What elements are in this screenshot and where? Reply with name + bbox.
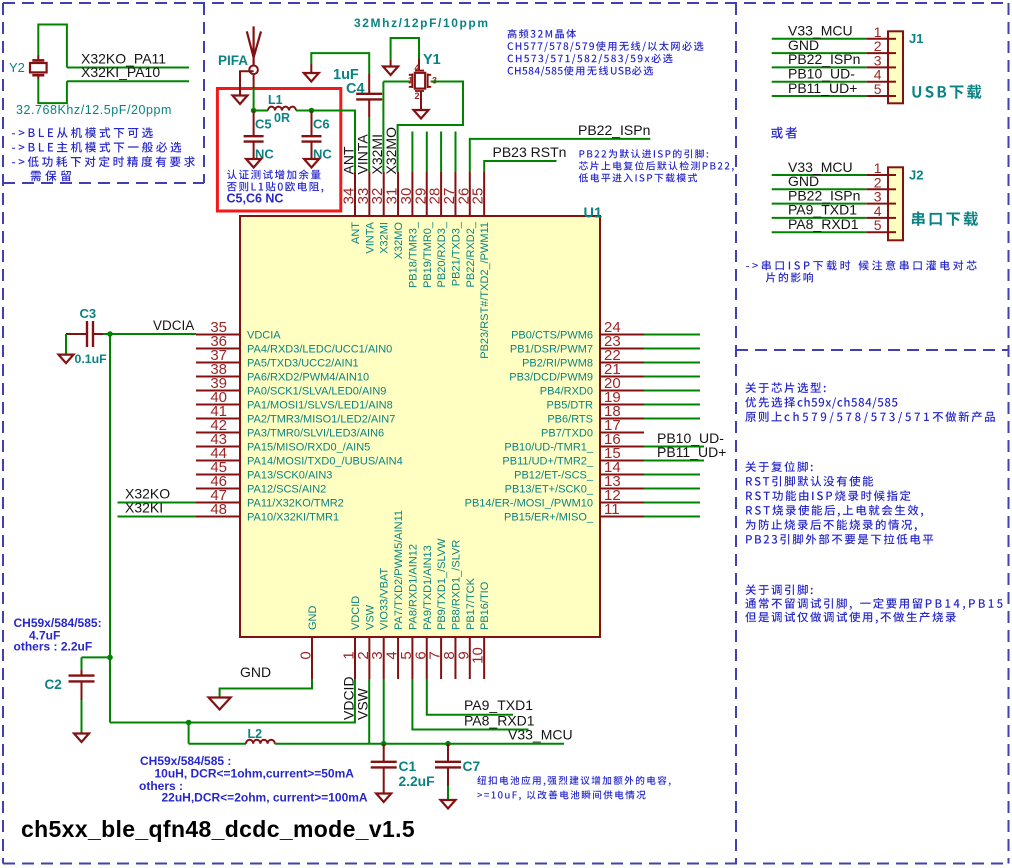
ground (C7) bbox=[441, 800, 456, 809]
node VDCIA junction bbox=[107, 331, 113, 337]
svg-text:10: 10 bbox=[470, 647, 487, 664]
J1 pin stubs bbox=[866, 38, 888, 40]
connector J2 body bbox=[888, 167, 903, 240]
note C7 battery line1 bbox=[477, 776, 670, 786]
svg-text:PB22_ISPn: PB22_ISPn bbox=[578, 122, 650, 138]
wire VSW pin2 down bbox=[368, 679, 370, 744]
svg-text:PB6/RTS: PB6/RTS bbox=[547, 414, 593, 426]
antenna PIFA symbol bbox=[247, 26, 261, 65]
svg-text:PA8_RXD1: PA8_RXD1 bbox=[788, 216, 859, 232]
wire VIO33 pin3 down bbox=[383, 679, 385, 744]
note serial ISP line2 bbox=[766, 272, 813, 282]
svg-text:PB1/DSR/PWM7: PB1/DSR/PWM7 bbox=[510, 344, 593, 356]
wire pin 14 stub right bbox=[644, 474, 700, 476]
svg-text:PB19/TMR0_: PB19/TMR0_ bbox=[422, 221, 434, 288]
svg-text:PB12/ET-/SCS_: PB12/ET-/SCS_ bbox=[514, 470, 594, 482]
wire pin 24 stub right bbox=[644, 334, 700, 336]
svg-text:PA11/X32KO/TMR2: PA11/X32KO/TMR2 bbox=[247, 498, 344, 510]
svg-text:C4: C4 bbox=[346, 81, 365, 97]
svg-text:PA15/MISO/RXD0_/AIN5: PA15/MISO/RXD0_/AIN5 bbox=[247, 442, 370, 454]
wire GND pin0 bbox=[220, 679, 312, 698]
ground (U1 GND) bbox=[209, 698, 231, 710]
svg-text:32.768Khz/12.5pF/20ppm: 32.768Khz/12.5pF/20ppm bbox=[16, 103, 172, 117]
svg-text:PB7/TXD0: PB7/TXD0 bbox=[541, 428, 593, 440]
svg-text:PIFA: PIFA bbox=[218, 53, 248, 68]
svg-text:J2: J2 bbox=[909, 168, 923, 183]
svg-text:PA12/SCS/AIN2: PA12/SCS/AIN2 bbox=[247, 484, 326, 496]
wire VDCIA bbox=[103, 333, 196, 335]
svg-text:Y2: Y2 bbox=[9, 60, 25, 75]
wire pin 20 stub right bbox=[644, 390, 700, 392]
U1 bottom pin stubs 0-10 bbox=[311, 637, 313, 679]
U1 left pin stubs 35-48 bbox=[196, 334, 240, 336]
crystal Y1 bbox=[418, 59, 420, 71]
wire C4 top to ground loop bbox=[311, 53, 369, 74]
capacitor C1 bbox=[383, 744, 385, 762]
svg-text:VDCIA: VDCIA bbox=[247, 330, 281, 342]
label UART download bbox=[912, 211, 978, 226]
svg-text:others : 2.2uF: others : 2.2uF bbox=[14, 640, 93, 654]
svg-text:C1: C1 bbox=[399, 759, 417, 774]
svg-text:PA8_RXD1: PA8_RXD1 bbox=[464, 713, 535, 729]
svg-text:ch5xx_ble_qfn48_dcdc_mode_v1.5: ch5xx_ble_qfn48_dcdc_mode_v1.5 bbox=[21, 816, 415, 842]
node L1/C6 junction bbox=[309, 108, 315, 114]
svg-text:GND: GND bbox=[307, 606, 319, 631]
wire PB10_UD- pin16 bbox=[644, 446, 704, 448]
svg-text:0.1uF: 0.1uF bbox=[75, 352, 108, 366]
svg-text:C2: C2 bbox=[45, 677, 62, 692]
wire Y1 pin3 to X32MO bbox=[398, 82, 463, 173]
svg-text:PB11/UD+/TMR2_: PB11/UD+/TMR2_ bbox=[502, 456, 593, 468]
note reset pin line5 bbox=[746, 519, 917, 531]
note BLE mode line1 bbox=[12, 127, 153, 138]
note BLE mode line2 bbox=[12, 142, 181, 153]
svg-text:0R: 0R bbox=[274, 111, 290, 125]
wire pin 13 stub right bbox=[644, 488, 700, 490]
svg-text:PA14/MOSI/TXD0_/UBUS/AIN4: PA14/MOSI/TXD0_/UBUS/AIN4 bbox=[247, 456, 403, 468]
ground (antenna) bbox=[233, 96, 248, 105]
svg-text:PA7/TXD2/PWM5/AIN11: PA7/TXD2/PWM5/AIN11 bbox=[393, 510, 405, 630]
svg-text:PB16/TIO: PB16/TIO bbox=[479, 581, 491, 630]
svg-text:PA13/SCK0/AIN3: PA13/SCK0/AIN3 bbox=[247, 470, 332, 482]
note PB22 ISP line3 bbox=[579, 173, 697, 182]
svg-text:C7: C7 bbox=[463, 759, 481, 774]
ground (C5) bbox=[246, 159, 261, 168]
svg-text:5: 5 bbox=[874, 217, 882, 233]
svg-text:J1: J1 bbox=[909, 31, 923, 46]
J1 wires bbox=[772, 38, 867, 40]
note 32M crystal line2 bbox=[508, 41, 704, 51]
svg-text:2: 2 bbox=[414, 91, 419, 101]
svg-text:PB14/ER-/MOSI_/PWM10: PB14/ER-/MOSI_/PWM10 bbox=[465, 498, 593, 510]
wire VDCIA rail down bbox=[109, 334, 111, 723]
svg-text:PA1/MOSI1/SLVS/LED1/AIN8: PA1/MOSI1/SLVS/LED1/AIN8 bbox=[247, 400, 393, 412]
svg-text:48: 48 bbox=[210, 501, 227, 518]
wire PA8_RXD1 bbox=[412, 679, 528, 730]
svg-text:VDCID: VDCID bbox=[350, 596, 362, 630]
svg-text:25: 25 bbox=[470, 188, 487, 205]
wire pin 18 stub right bbox=[644, 418, 700, 420]
wire PB18 stub up bbox=[411, 132, 413, 173]
node C2 junction bbox=[107, 655, 113, 661]
svg-text:PB11_UD+: PB11_UD+ bbox=[788, 80, 857, 96]
svg-text:PB23 RSTn: PB23 RSTn bbox=[493, 144, 567, 160]
wire Y1 pin4 to ground loop bbox=[391, 38, 419, 60]
note BLE mode line4 bbox=[31, 170, 71, 181]
wire PB22_ISPn bbox=[470, 139, 651, 172]
wire pin 11 stub right bbox=[644, 516, 700, 518]
svg-text:PB17/TCK: PB17/TCK bbox=[465, 577, 477, 630]
svg-text:L1: L1 bbox=[268, 93, 283, 107]
ground (Y1 pin2) bbox=[414, 110, 429, 119]
wire PB19 stub up bbox=[426, 132, 428, 173]
svg-text:PA9_TXD1: PA9_TXD1 bbox=[464, 697, 533, 713]
wire Y2-top to X32KO_PA11 bbox=[38, 25, 67, 68]
note 32M crystal line4 bbox=[508, 66, 653, 76]
svg-text:PA10/X32KI/TMR1: PA10/X32KI/TMR1 bbox=[247, 512, 339, 524]
svg-text:PA5/TXD3/UCC2/AIN1: PA5/TXD3/UCC2/AIN1 bbox=[247, 358, 359, 370]
crystal Y2 bbox=[37, 55, 39, 60]
svg-text:VIO33/VBAT: VIO33/VBAT bbox=[379, 568, 391, 630]
U1 right pin stubs 24-11 bbox=[600, 334, 644, 336]
wire pin 19 stub right bbox=[644, 404, 700, 406]
note 32M crystal line1 bbox=[508, 29, 576, 39]
svg-text:PA4/RXD3/LEDC/UCC1/AIN0: PA4/RXD3/LEDC/UCC1/AIN0 bbox=[247, 344, 392, 356]
node VDCID/L2 junction bbox=[186, 720, 192, 726]
ground (C3) bbox=[59, 355, 74, 364]
connector J1 body bbox=[888, 31, 903, 103]
svg-text:PA9/TXD1/AIN13: PA9/TXD1/AIN13 bbox=[422, 545, 434, 630]
svg-text:PB8/RXD1_/SLVR: PB8/RXD1_/SLVR bbox=[450, 540, 462, 630]
svg-text:PB2/RI/PWM8: PB2/RI/PWM8 bbox=[522, 358, 593, 370]
inductor L2 bbox=[189, 743, 246, 745]
wire C3 left to ground bbox=[65, 334, 67, 355]
note reset pin line2 bbox=[746, 476, 873, 487]
J2 pin stubs bbox=[866, 174, 888, 176]
svg-text:X32KI: X32KI bbox=[125, 500, 163, 516]
wire pin 22 stub right bbox=[644, 362, 700, 364]
svg-text:PB15/ER+/MISO_: PB15/ER+/MISO_ bbox=[504, 512, 594, 524]
wire L1 to ANT pin bbox=[312, 111, 356, 173]
note serial ISP line1 bbox=[746, 260, 977, 270]
note BLE mode line3 bbox=[12, 156, 195, 167]
svg-text:PB11_UD+: PB11_UD+ bbox=[657, 444, 726, 460]
note debug pin line1 bbox=[746, 584, 813, 595]
note chip selection line2 bbox=[745, 397, 897, 409]
J2 wires bbox=[772, 174, 867, 176]
svg-text:4: 4 bbox=[414, 63, 419, 73]
svg-text:32Mhz/12pF/10ppm: 32Mhz/12pF/10ppm bbox=[354, 16, 490, 30]
note C7 battery line2 bbox=[477, 790, 645, 800]
label USB download bbox=[912, 84, 981, 99]
inductor L1 bbox=[254, 110, 268, 112]
note antenna matching line1 bbox=[227, 170, 321, 180]
wire PB11_UD+ pin15 bbox=[644, 460, 704, 462]
capacitor C5 bbox=[253, 111, 255, 137]
svg-text:PB21/TXD3_: PB21/TXD3_ bbox=[450, 221, 462, 286]
node C7 junction bbox=[445, 741, 451, 747]
svg-text:L2: L2 bbox=[248, 727, 263, 741]
wire Y1 pin1 to X32MI bbox=[383, 81, 410, 83]
svg-text:C5,C6 NC: C5,C6 NC bbox=[227, 192, 284, 206]
capacitor C2 bbox=[81, 670, 83, 676]
svg-text:2.2uF: 2.2uF bbox=[399, 774, 435, 789]
svg-text:PB9/TXD1_/SLVW: PB9/TXD1_/SLVW bbox=[436, 538, 448, 630]
ground (C4) bbox=[310, 64, 312, 73]
wire junction down to L2 bbox=[188, 723, 190, 744]
svg-text:PA2/TMR3/MISO1/LED2/AIN7: PA2/TMR3/MISO1/LED2/AIN7 bbox=[247, 414, 395, 426]
wire antenna down to L1 node bbox=[253, 88, 255, 111]
svg-text:X32MI: X32MI bbox=[379, 222, 391, 254]
svg-text:PA0/SCK1/SLVA/LED0/AIN9: PA0/SCK1/SLVA/LED0/AIN9 bbox=[247, 386, 386, 398]
svg-text:PB23/RST#/TXD2_/PWM11: PB23/RST#/TXD2_/PWM11 bbox=[479, 222, 491, 359]
wire PB20 stub up bbox=[440, 132, 442, 173]
svg-text:GND: GND bbox=[240, 664, 271, 680]
wire PB23 RSTn bbox=[484, 161, 556, 172]
note reset pin line6 bbox=[746, 534, 933, 545]
wire X32KI_PA10 bbox=[67, 80, 189, 82]
wire PA9_TXD1 bbox=[427, 679, 513, 715]
svg-text:5: 5 bbox=[874, 81, 882, 97]
wire antenna to ground hook bbox=[240, 71, 254, 95]
svg-text:PB20/RXD3_: PB20/RXD3_ bbox=[436, 221, 448, 287]
svg-text:Y1: Y1 bbox=[423, 52, 441, 68]
svg-text:PA8/RXD1/AIN12: PA8/RXD1/AIN12 bbox=[407, 544, 419, 630]
ground (Y1 pin4) bbox=[390, 60, 392, 67]
svg-text:PB13/ET+/SCK0_: PB13/ET+/SCK0_ bbox=[505, 484, 594, 496]
svg-text:ANT: ANT bbox=[350, 222, 362, 244]
note chip selection line1 bbox=[746, 382, 826, 393]
ground (C6) bbox=[304, 159, 319, 168]
wire Y2-bottom to X32KI_PA10 bbox=[38, 79, 67, 103]
capacitor C3 bbox=[66, 333, 87, 335]
svg-text:VINTA: VINTA bbox=[364, 221, 376, 253]
capacitor C7 bbox=[447, 744, 449, 762]
svg-text:PA6/RXD2/PWM4/AIN10: PA6/RXD2/PWM4/AIN10 bbox=[247, 372, 369, 384]
svg-text:C3: C3 bbox=[80, 306, 97, 321]
capacitor C6 bbox=[311, 111, 313, 137]
ground (C1) bbox=[376, 794, 391, 803]
svg-text:0: 0 bbox=[298, 651, 315, 659]
note chip selection line3 bbox=[745, 411, 995, 423]
note reset pin line4 bbox=[746, 505, 923, 517]
svg-text:10uH, DCR<=1ohm,current>=50mA: 10uH, DCR<=1ohm,current>=50mA bbox=[155, 767, 355, 781]
wire C2 branch bbox=[82, 656, 111, 658]
note antenna matching line2 bbox=[227, 182, 323, 193]
note reset pin line1 bbox=[746, 461, 813, 472]
wire X32KO_PA11 bbox=[67, 67, 189, 69]
svg-text:C6: C6 bbox=[313, 117, 330, 132]
node antenna/L1/C5 junction bbox=[251, 108, 257, 114]
svg-text:X32MO: X32MO bbox=[393, 222, 405, 260]
wire C4 to VINTA pin bbox=[368, 117, 370, 172]
svg-text:PB0/CTS/PWM6: PB0/CTS/PWM6 bbox=[511, 330, 593, 342]
wire pin 21 stub right bbox=[644, 376, 700, 378]
note debug pin line3 bbox=[745, 612, 956, 624]
wire pin 23 stub right bbox=[644, 348, 700, 350]
svg-text:PB18/TMR3_: PB18/TMR3_ bbox=[407, 221, 419, 288]
svg-text:VDCIA: VDCIA bbox=[153, 318, 194, 333]
note PB22 ISP line1 bbox=[580, 149, 709, 158]
svg-text:PB5/DTR: PB5/DTR bbox=[547, 400, 594, 412]
wire VDCID pin1 bbox=[110, 679, 355, 723]
wire PB21 stub up bbox=[455, 132, 457, 173]
svg-text:PB3/DCD/PWM9: PB3/DCD/PWM9 bbox=[509, 372, 593, 384]
svg-text:PA3/TMR0/SLVI/LED3/AIN6: PA3/TMR0/SLVI/LED3/AIN6 bbox=[247, 428, 384, 440]
ground (C2) bbox=[74, 734, 89, 743]
note reset pin line3 bbox=[746, 490, 910, 501]
capacitor C4 bbox=[368, 74, 370, 94]
note PB22 ISP line2 bbox=[579, 161, 734, 171]
note or bbox=[771, 127, 797, 139]
wire X32KI bbox=[118, 516, 197, 518]
svg-text:22uH,DCR<=2ohm, current>=100mA: 22uH,DCR<=2ohm, current>=100mA bbox=[162, 791, 368, 805]
wire pin 12 stub right bbox=[644, 502, 700, 504]
svg-text:U1: U1 bbox=[584, 206, 603, 222]
node C1 junction bbox=[381, 741, 387, 747]
svg-text:X32KI_PA10: X32KI_PA10 bbox=[81, 64, 160, 80]
svg-text:VSW: VSW bbox=[364, 604, 376, 630]
note 32M crystal line3 bbox=[508, 54, 673, 64]
svg-text:PB10/UD-/TMR1_: PB10/UD-/TMR1_ bbox=[504, 442, 594, 454]
red highlight box bbox=[217, 89, 340, 212]
svg-text:PB22/RXD2_: PB22/RXD2_ bbox=[465, 221, 477, 287]
U1 top pin stubs 34-25 bbox=[354, 172, 356, 216]
svg-text:C5: C5 bbox=[255, 117, 272, 132]
note debug pin line2 bbox=[745, 598, 1002, 610]
svg-text:11: 11 bbox=[604, 501, 620, 518]
wire X32KO bbox=[118, 502, 197, 504]
svg-text:PB4/RXD0: PB4/RXD0 bbox=[540, 386, 593, 398]
IC U1 body bbox=[240, 216, 600, 637]
